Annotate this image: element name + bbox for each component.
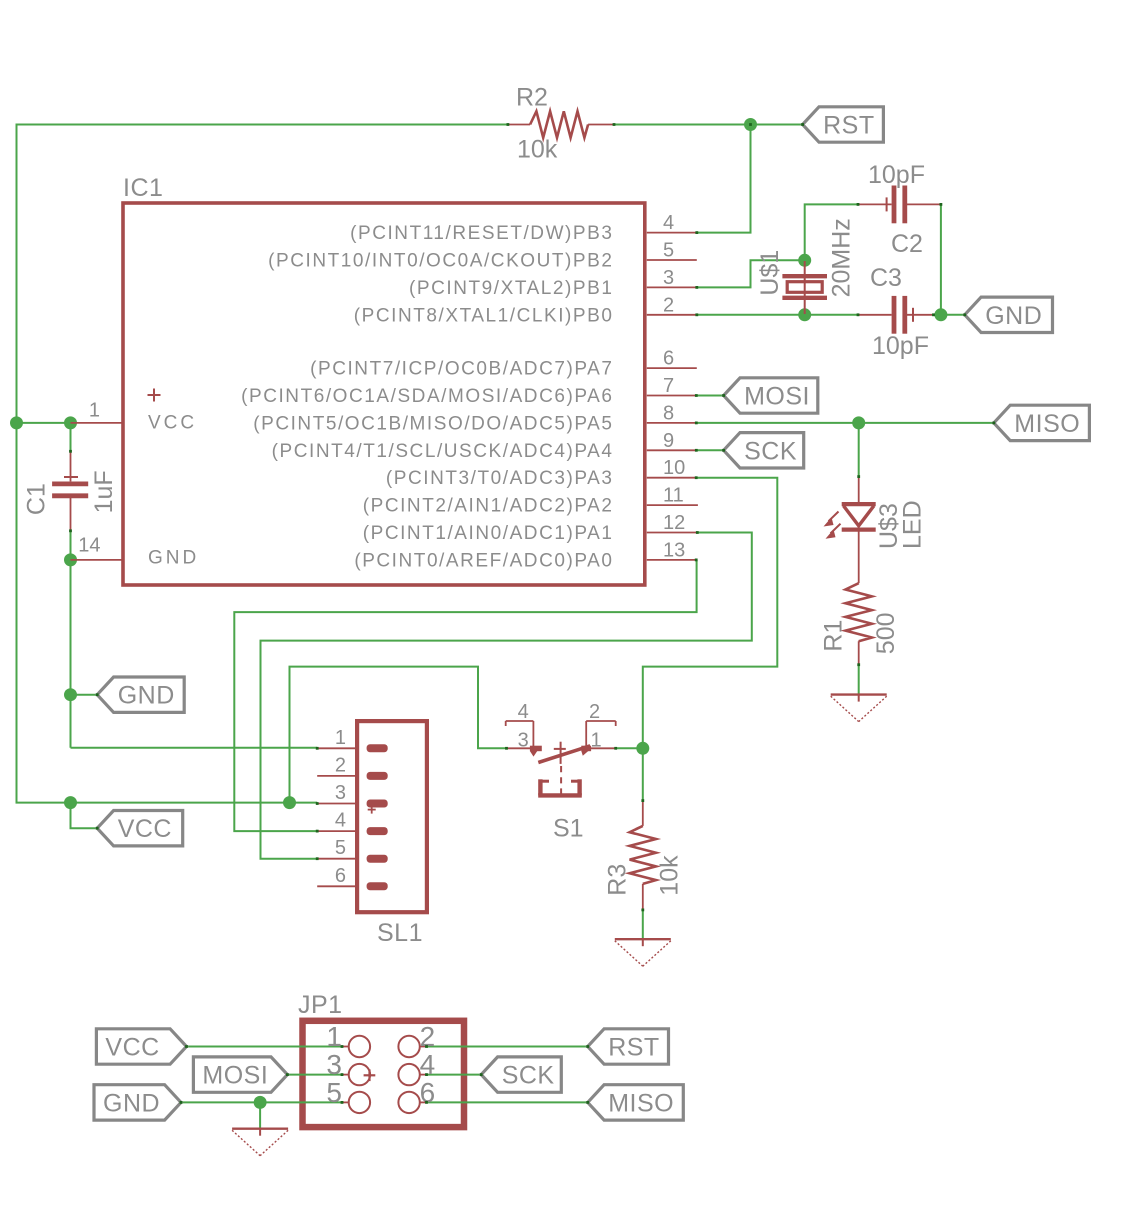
wire net VCC to JP1 pin 1	[187, 1046, 343, 1048]
supply flag GND (crystal)	[965, 297, 1053, 332]
svg-text:R2: R2	[516, 84, 548, 112]
svg-text:MISO: MISO	[1014, 410, 1080, 438]
capacitor C2 tick mark	[886, 197, 888, 211]
label C1	[22, 483, 50, 515]
svg-text:1: 1	[89, 400, 100, 422]
crystal U$1 lead	[804, 261, 806, 314]
SL1 pin 1 stub	[317, 747, 357, 749]
supply flag MOSI (IC1)	[724, 378, 818, 413]
svg-text:4: 4	[663, 212, 674, 234]
wire net MISO to JP1 pin 6	[427, 1101, 588, 1103]
svg-text:(PCINT5/OC1B/MISO/DO/ADC5)PA5: (PCINT5/OC1B/MISO/DO/ADC5)PA5	[253, 413, 613, 434]
capacitor C3 right lead	[907, 314, 934, 316]
svg-text:2: 2	[663, 294, 674, 316]
svg-text:12: 12	[663, 512, 685, 534]
svg-text:5: 5	[335, 837, 346, 859]
wire net PA1 from IC1 pin 12 to SL1 pin 5	[261, 533, 752, 859]
wire net RST from R2 to RST flag	[614, 124, 803, 126]
JP1 pin 2 pad	[398, 1036, 419, 1057]
svg-text:SCK: SCK	[502, 1062, 555, 1090]
svg-text:(PCINT0/AREF/ADC0)PA0: (PCINT0/AREF/ADC0)PA0	[354, 550, 613, 571]
wire net VCC left vertical	[16, 124, 18, 803]
junction GND / JP1 ground	[254, 1096, 267, 1109]
switch S1 pin 1 stub and contact	[581, 746, 615, 756]
wire net GND from C1 to pin 14 and GND flag	[70, 531, 72, 748]
supply flag SCK (IC1)	[724, 433, 804, 468]
svg-text:1: 1	[326, 1021, 342, 1052]
wire net GND C1 upper segment	[70, 423, 72, 451]
IC1 pin name (PCINT8/XTAL1/CLKI)PB0	[354, 305, 614, 326]
value 20MHz	[828, 218, 856, 297]
SL1 pin 5 stub	[317, 858, 357, 860]
supply flag VCC (left)	[97, 811, 183, 846]
IC1 pin 13 stub	[647, 559, 697, 561]
wire net VCC bottom horizontal to SL1 pin 3	[16, 802, 318, 804]
svg-text:(PCINT1/AIN0/ADC1)PA1: (PCINT1/AIN0/ADC1)PA1	[363, 523, 614, 544]
svg-text:10pF: 10pF	[868, 161, 925, 189]
svg-text:SL1: SL1	[377, 919, 423, 947]
ground symbol below R3	[615, 938, 671, 966]
LED U$3 arrows	[824, 512, 841, 539]
junction GND / GND flag	[64, 688, 77, 701]
svg-text:C3: C3	[870, 264, 902, 292]
switch S1 lever	[538, 746, 590, 763]
svg-text:LED: LED	[899, 500, 927, 549]
SL1 pin 4 stub	[317, 830, 357, 832]
value 500	[872, 612, 900, 654]
svg-text:VCC: VCC	[148, 413, 197, 434]
wire endpoint marks	[69, 123, 995, 1104]
IC1 pin 10 stub	[647, 477, 697, 479]
IC1 pin number 11	[663, 485, 684, 507]
IC1 pin name (PCINT2/AIN1/ADC2)PA2	[363, 496, 614, 517]
switch S1 pin 3 stub and contact	[507, 746, 542, 757]
supply flag MISO (right)	[994, 405, 1090, 440]
svg-text:IC1: IC1	[123, 174, 163, 202]
JP1 pin 5 stub	[342, 1101, 349, 1103]
IC1 pin 12 stub	[647, 532, 697, 534]
IC1 pin 7 stub	[647, 395, 697, 397]
JP1 pin number 4	[420, 1049, 436, 1080]
SL1 pin 6 stub	[317, 885, 357, 887]
switch S1 button bracket	[538, 779, 582, 795]
IC1 pin name (PCINT4/T1/SCL/USCK/ADC4)PA4	[272, 441, 614, 462]
wire net XTAL1 crystal top to C2	[805, 204, 858, 260]
svg-text:20MHz: 20MHz	[828, 218, 856, 297]
JP1 pin number 1	[326, 1021, 342, 1052]
S1 pin number 1	[591, 730, 602, 752]
IC IC1 ATtiny84 body	[123, 203, 645, 585]
IC1 pin number 4	[663, 212, 674, 234]
wire net XTAL2 from IC1 pin 2 to C3	[697, 314, 858, 316]
resistor R3 bottom lead	[642, 884, 644, 910]
wire net VCC branch to VCC flag	[71, 803, 98, 829]
capacitor C1 bottom lead	[70, 498, 72, 531]
capacitor C2 left lead	[858, 203, 892, 205]
IC1 pin number 13	[663, 539, 685, 561]
svg-text:10: 10	[663, 457, 685, 479]
svg-text:1: 1	[335, 727, 346, 749]
label IC1	[123, 174, 163, 202]
label R2	[516, 84, 548, 112]
resistor R1 bottom lead	[858, 641, 860, 665]
svg-text:1: 1	[591, 730, 602, 752]
svg-text:(PCINT10/INT0/OC0A/CKOUT)PB2: (PCINT10/INT0/OC0A/CKOUT)PB2	[268, 251, 613, 272]
wire net MOSI to JP1 pin 3	[287, 1074, 342, 1076]
svg-text:MOSI: MOSI	[202, 1062, 268, 1090]
svg-text:8: 8	[663, 402, 674, 424]
IC1 pin name (PCINT3/T0/ADC3)PA3	[386, 468, 614, 489]
junction RST	[744, 118, 757, 131]
capacitor C2 10pF plates	[894, 186, 905, 224]
wire net PA3 from IC1 pin 10	[643, 478, 778, 749]
JP1 pin 3 stub	[342, 1074, 349, 1076]
IC1 pin name (PCINT1/AIN0/ADC1)PA1	[363, 523, 614, 544]
capacitor C1 tick mark	[64, 476, 78, 478]
SL1 pin number 3	[335, 782, 346, 804]
IC1 pin number 10	[663, 457, 685, 479]
SL1 pin 3 contact bar	[367, 800, 388, 808]
wire net R1 bottom to ground	[858, 665, 860, 694]
connector SL1 body	[357, 721, 427, 912]
IC1 pin number 14	[78, 535, 100, 557]
JP1 pin number 6	[420, 1077, 436, 1108]
capacitor C2 right lead	[907, 203, 941, 205]
svg-text:C1: C1	[22, 483, 50, 515]
SL1 origin cross	[368, 806, 376, 814]
JP1 pin 6 pad	[398, 1092, 419, 1113]
IC1 pin 3 stub	[647, 286, 697, 288]
junction VCC / IC1 pin 1	[10, 416, 23, 429]
wire net GND right vertical C2 to C3	[940, 204, 942, 314]
IC1 pin number 1	[89, 400, 100, 422]
label R1	[820, 620, 848, 652]
supply flag MOSI (JP1)	[193, 1057, 287, 1092]
svg-text:RST: RST	[608, 1034, 660, 1062]
SL1 pin 1 contact bar	[367, 744, 388, 752]
svg-text:SCK: SCK	[744, 437, 797, 465]
svg-text:GND: GND	[148, 548, 199, 569]
svg-text:(PCINT11/RESET/DW)PB3: (PCINT11/RESET/DW)PB3	[350, 223, 613, 244]
svg-text:(PCINT6/OC1A/SDA/MOSI/ADC6)PA6: (PCINT6/OC1A/SDA/MOSI/ADC6)PA6	[241, 386, 613, 407]
JP1 pin 6 stub	[420, 1101, 427, 1103]
label S1	[553, 815, 584, 843]
wire net VCC top horizontal to R2	[17, 124, 508, 126]
wire net VCC to IC1 pin 1	[17, 422, 71, 424]
svg-text:4: 4	[518, 701, 529, 723]
label C3	[870, 264, 902, 292]
svg-text:10k: 10k	[656, 855, 684, 896]
supply flag SCK (JP1)	[481, 1057, 561, 1092]
JP1 pin 1 stub	[342, 1046, 349, 1048]
SL1 pin 5 contact bar	[367, 855, 388, 863]
ground symbol below JP1	[232, 1128, 288, 1156]
SL1 pin number 1	[335, 727, 346, 749]
connector JP1 body	[303, 1021, 465, 1127]
svg-text:5: 5	[326, 1077, 342, 1108]
wire net MISO branch to LED	[858, 423, 860, 477]
junction XTAL2 / crystal pin 2	[798, 308, 811, 321]
svg-text:GND: GND	[103, 1089, 160, 1117]
SL1 pin number 4	[335, 810, 346, 832]
junction GND / IC1 pin 14	[64, 553, 77, 566]
JP1 pin 3 pad	[349, 1064, 370, 1085]
wire net GND pin 14 horizontal	[71, 559, 73, 561]
IC1 pin 2 stub	[647, 314, 697, 316]
SL1 pin 6 contact bar	[367, 882, 388, 890]
label C2	[891, 230, 923, 258]
IC1 pin name (PCINT9/XTAL2)PB1	[409, 278, 613, 299]
IC1 pin number 2	[663, 294, 674, 316]
supply flag GND (left)	[97, 677, 184, 712]
IC1 pin name (PCINT11/RESET/DW)PB3	[350, 223, 613, 244]
S1 pin number 3	[518, 730, 529, 752]
resistor R2 left lead	[508, 124, 530, 126]
label R3	[603, 864, 631, 896]
LED U$3 body	[842, 504, 876, 529]
supply flag GND (JP1)	[94, 1085, 181, 1120]
wire net GND to ground below JP1	[259, 1102, 261, 1128]
svg-text:4: 4	[335, 810, 346, 832]
IC1 pin 8 stub	[647, 422, 697, 424]
SL1 pin 4 contact bar	[367, 827, 388, 835]
svg-text:(PCINT9/XTAL2)PB1: (PCINT9/XTAL2)PB1	[409, 278, 613, 299]
value 10pF (C3)	[872, 332, 929, 360]
switch S1 pin 4 stub	[506, 721, 534, 748]
JP1 pin 2 stub	[420, 1046, 427, 1048]
wire net RST to JP1 pin 2	[427, 1046, 588, 1048]
IC1 pin name (PCINT10/INT0/OC0A/CKOUT)PB2	[268, 251, 613, 272]
svg-text:C2: C2	[891, 230, 923, 258]
junction VCC / S1 branch	[283, 796, 296, 809]
svg-text:VCC: VCC	[105, 1034, 159, 1062]
IC1 pin 11 stub	[647, 504, 698, 506]
junction PA3 / S1 / R3	[636, 742, 649, 755]
LED to R1 lead	[858, 530, 860, 584]
IC1 pin number 3	[663, 267, 674, 289]
IC1 pin name VCC	[148, 413, 197, 434]
resistor R3 10k	[630, 826, 656, 884]
switch S1 pin 2 stub	[586, 721, 616, 748]
LED U$3 top lead	[858, 477, 860, 504]
supply flag RST (JP1)	[588, 1029, 669, 1064]
capacitor C1 1uF plates	[52, 484, 88, 496]
value 10pF (C2)	[868, 161, 925, 189]
svg-text:10k: 10k	[517, 136, 558, 164]
JP1 pin 4 pad	[398, 1064, 419, 1085]
SL1 pin 3 stub	[317, 803, 357, 805]
JP1 origin cross	[364, 1069, 376, 1081]
label U$1	[756, 250, 784, 296]
svg-text:500: 500	[872, 612, 900, 654]
IC1 pin number 12	[663, 512, 685, 534]
S1 pin number 4	[518, 701, 529, 723]
resistor R3 top lead	[642, 801, 644, 826]
svg-text:3: 3	[326, 1049, 342, 1080]
svg-text:(PCINT2/AIN1/ADC2)PA2: (PCINT2/AIN1/ADC2)PA2	[363, 496, 614, 517]
IC1 pin name (PCINT5/OC1B/MISO/DO/ADC5)PA5	[253, 413, 613, 434]
SL1 pin 2 stub	[317, 775, 357, 777]
IC1 pin name (PCINT6/OC1A/SDA/MOSI/ADC6)PA6	[241, 386, 613, 407]
value 10k (R2)	[517, 136, 558, 164]
wire net VCC branch to S1 pin 3	[290, 667, 507, 803]
wire net PA0 from IC1 pin 13 to SL1 pin 4	[234, 560, 696, 831]
junction VCC / VCC flag	[64, 796, 77, 809]
wire net GND to JP1 pin 5	[181, 1101, 342, 1103]
JP1 pin number 3	[326, 1049, 342, 1080]
JP1 pin number 5	[326, 1077, 342, 1108]
wire net GND bottom horizontal to SL1 pin 1	[71, 747, 318, 749]
svg-text:S1: S1	[553, 815, 584, 843]
wire net PA3 to R3	[642, 748, 644, 800]
svg-text:MOSI: MOSI	[744, 383, 810, 411]
resistor R1 500	[846, 583, 872, 641]
SL1 pin number 5	[335, 837, 346, 859]
IC1 pin number 9	[663, 430, 674, 452]
svg-text:R3: R3	[603, 864, 631, 896]
svg-text:11: 11	[663, 485, 684, 507]
IC1 pin number 8	[663, 402, 674, 424]
svg-text:6: 6	[663, 348, 674, 370]
crystal U$1 20MHz body	[782, 276, 827, 298]
IC1 pin name GND	[148, 548, 199, 569]
junction VCC / C1 top	[64, 416, 77, 429]
label U$3	[875, 503, 903, 549]
svg-text:GND: GND	[118, 682, 175, 710]
supply flag MISO (JP1)	[588, 1085, 684, 1120]
IC1 pin 4 stub	[647, 232, 697, 234]
JP1 pin 1 pad	[349, 1036, 370, 1057]
wire net MOSI	[696, 395, 723, 397]
wire net GND right to GND flag	[934, 314, 965, 316]
junction MISO / LED	[852, 416, 865, 429]
IC1 pin 6 stub	[647, 367, 697, 369]
svg-text:3: 3	[518, 730, 529, 752]
S1 pin number 2	[589, 701, 600, 723]
IC1 pin 14 stub	[71, 559, 122, 561]
svg-text:3: 3	[663, 267, 674, 289]
junction GND right	[934, 308, 947, 321]
svg-text:VCC: VCC	[118, 815, 172, 843]
ground symbol below R1	[831, 694, 887, 722]
capacitor C1 top lead	[70, 451, 72, 481]
wire net XTAL1 from IC1 pin 3 to crystal	[697, 260, 805, 287]
svg-text:10pF: 10pF	[872, 332, 929, 360]
svg-text:2: 2	[335, 754, 346, 776]
wire net MISO	[696, 422, 994, 424]
svg-text:3: 3	[335, 782, 346, 804]
switch S1 pivot cross	[554, 742, 566, 764]
capacitor C3 10pF plates	[894, 296, 905, 334]
svg-text:JP1: JP1	[298, 991, 343, 1019]
IC1 pin number 5	[663, 240, 674, 262]
supply flag VCC (JP1)	[96, 1029, 186, 1064]
label SL1	[377, 919, 423, 947]
value 1uF	[90, 470, 118, 513]
IC1 pin 1 stub	[71, 422, 122, 424]
svg-text:RST: RST	[823, 112, 875, 140]
wire net SCK	[696, 449, 723, 451]
resistor R2 right lead	[588, 124, 614, 126]
SL1 pin number 2	[335, 754, 346, 776]
switch S1 actuator dashed line	[560, 766, 562, 795]
svg-text:9: 9	[663, 430, 674, 452]
JP1 pin 4 stub	[420, 1074, 427, 1076]
svg-text:MISO: MISO	[608, 1089, 674, 1117]
IC1 pin number 6	[663, 348, 674, 370]
svg-text:GND: GND	[985, 302, 1042, 330]
wire net GND to GND flag	[71, 694, 98, 696]
IC1 pin 5 stub	[647, 259, 697, 261]
wire net SCK to JP1 pin 4	[427, 1074, 482, 1076]
svg-text:7: 7	[663, 375, 674, 397]
svg-text:2: 2	[589, 701, 600, 723]
capacitor C3 tick mark	[912, 308, 914, 322]
wire net R3 bottom to ground	[642, 910, 644, 939]
label JP1	[298, 991, 343, 1019]
svg-text:(PCINT7/ICP/OC0B/ADC7)PA7: (PCINT7/ICP/OC0B/ADC7)PA7	[310, 359, 613, 380]
IC1 pin name (PCINT7/ICP/OC0B/ADC7)PA7	[310, 359, 613, 380]
resistor R2 10k	[530, 111, 588, 137]
svg-text:1uF: 1uF	[90, 470, 118, 513]
supply flag RST (top)	[803, 107, 884, 142]
wire net PA3 from S1 pin 1	[616, 747, 643, 749]
JP1 pin number 2	[420, 1021, 436, 1052]
JP1 pin 5 pad	[349, 1092, 370, 1113]
value LED	[899, 500, 927, 549]
svg-text:U$1: U$1	[756, 250, 784, 296]
svg-text:R1: R1	[820, 620, 848, 652]
capacitor C3 left lead	[858, 314, 892, 316]
svg-text:6: 6	[335, 865, 346, 887]
junction XTAL1 / crystal pin 1	[798, 254, 811, 267]
svg-text:5: 5	[663, 240, 674, 262]
SL1 pin 2 contact bar	[367, 772, 388, 780]
IC1 VCC plus mark	[148, 389, 161, 402]
SL1 pin number 6	[335, 865, 346, 887]
IC1 pin name (PCINT0/AREF/ADC0)PA0	[354, 550, 613, 571]
svg-text:(PCINT3/T0/ADC3)PA3: (PCINT3/T0/ADC3)PA3	[386, 468, 614, 489]
IC1 pin 9 stub	[647, 449, 697, 451]
svg-text:(PCINT8/XTAL1/CLKI)PB0: (PCINT8/XTAL1/CLKI)PB0	[354, 305, 614, 326]
svg-text:(PCINT4/T1/SCL/USCK/ADC4)PA4: (PCINT4/T1/SCL/USCK/ADC4)PA4	[272, 441, 614, 462]
IC1 pin number 7	[663, 375, 674, 397]
svg-text:14: 14	[78, 535, 100, 557]
svg-text:13: 13	[663, 539, 685, 561]
value 10k (R3)	[656, 855, 684, 896]
wire net RST to IC1 pin 4	[697, 125, 751, 233]
